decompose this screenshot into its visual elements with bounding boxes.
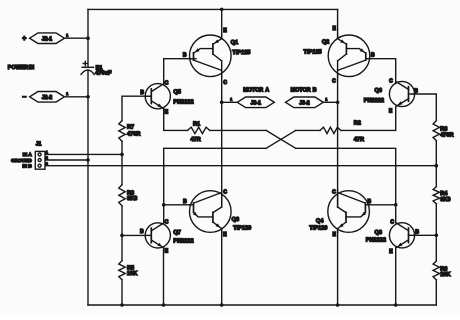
label Q5 pin C [165,80,169,86]
transistor Q2 [328,34,370,77]
wire crossover lower-right to Q4 base node [296,148,396,205]
svg-text:POWER: POWER [8,65,28,71]
wire Q4 base [369,204,396,206]
label IN A [23,152,33,157]
svg-text:2: 2 [46,156,48,160]
svg-text:470R: 470R [440,132,453,138]
transistor Q5 [145,84,170,109]
label R4 [440,191,450,203]
wire crossover diagonal B [266,130,296,148]
resistor R3 [119,185,125,206]
wire R6 to ground rail [435,280,437,305]
svg-text:1: 1 [230,97,232,101]
transistor Q7 [145,223,170,248]
transistor Q4 [328,190,370,233]
wire Q2 emitter pin [337,9,339,36]
label Q6 pin E [389,109,393,115]
label Q3 [232,217,252,232]
wire Q3 emitter to ground [221,229,223,305]
connector J3-1 MOTOR A [237,97,274,108]
svg-text:C: C [165,80,169,86]
svg-text:1: 1 [66,34,68,38]
svg-text:470R: 470R [127,132,140,138]
wire R8 to IN B node [435,141,437,187]
label Q2 pin B [371,52,375,58]
resistor R4 [433,187,439,204]
resistor R2 [320,127,341,133]
svg-text:10K: 10K [127,271,137,277]
svg-text:Q7: Q7 [173,230,180,236]
label J2-1 pin 1 [66,34,68,38]
svg-text:47R: 47R [354,137,364,143]
svg-text:10K: 10K [440,272,450,278]
node Q8 emitter ground junction [394,303,398,307]
wire motor A node to Q3 collector [221,102,223,207]
wire crossover diagonal A [266,130,296,148]
node IN A junction [120,153,124,157]
svg-text:C: C [332,190,336,196]
svg-text:C: C [332,78,336,84]
svg-text:TIP120: TIP120 [309,226,327,232]
svg-text:IN A: IN A [23,152,33,157]
wire Q4 emitter to ground [337,229,339,305]
svg-text:J1: J1 [36,142,42,148]
wire crossover upper-right to R2 [296,129,320,131]
wire R1 to crossover [210,129,266,131]
svg-text:J2-1: J2-1 [42,36,52,42]
label POWER IN [8,65,34,71]
wire Q8 emitter to ground [395,248,397,305]
resistor R8 [433,121,439,141]
svg-text:470uF: 470uF [95,71,112,77]
svg-text:C: C [165,219,169,225]
svg-text:B: B [368,199,372,205]
connector J3-2 MOTOR B [286,97,324,108]
wire J2-1 to rail [64,37,88,39]
svg-text:PN2222: PN2222 [173,99,193,105]
node Q3 base junction [162,203,166,207]
node Q7 base junction [120,234,124,238]
svg-text:IN B: IN B [22,163,32,168]
label E1 value [95,66,112,77]
svg-text:PN2222: PN2222 [364,98,384,104]
wire motor B hexagon lead [323,101,337,103]
svg-text:Q4: Q4 [316,218,324,224]
node Q8 base junction [435,234,439,238]
svg-text:3K3: 3K3 [440,197,450,203]
svg-text:GROUND: GROUND [11,158,32,163]
label Q7 pin E [165,249,169,255]
node ground J2-2 junction [86,95,90,99]
label Q1 [231,40,251,56]
svg-text:B: B [313,87,317,93]
label Q8 [366,230,386,244]
label J3-1 pin 1 [230,97,232,101]
svg-text:Q6: Q6 [375,88,382,94]
wire Q3 base [164,204,191,206]
svg-text:B: B [371,52,375,58]
svg-text:PN2222: PN2222 [173,238,193,244]
svg-text:R7: R7 [127,124,134,130]
label J1 [36,142,42,148]
node IN B junction [435,164,439,168]
connector J1 [35,151,45,169]
svg-text:B: B [140,90,144,96]
wire left V+ riser (J2-1 to top rail) [87,9,89,67]
resistor R5 [119,261,125,280]
svg-text:B: B [183,52,187,58]
wire Q7 emitter to ground [163,248,165,305]
transistor Q1 [189,34,231,77]
label Q2 pin C [332,78,336,84]
label J3-2 pin 1 [325,97,327,101]
label Q8 pin B [415,229,419,235]
svg-text:47R: 47R [190,137,200,143]
label R1 [190,121,200,143]
svg-text:C: C [223,80,227,86]
svg-text:Q2: Q2 [322,40,329,46]
svg-text:J2-2: J2-2 [42,95,52,101]
capacitor E1 [81,61,94,74]
svg-text:A: A [265,87,269,93]
label J2-2 minus [22,94,26,101]
label J2-1 plus [22,36,26,43]
wire R3 to R5 segment [121,206,123,261]
wire R5 to ground rail [121,280,123,305]
svg-text:C: C [390,220,394,226]
svg-text:MOTOR: MOTOR [243,87,263,93]
label Q5 pin B [140,90,144,96]
label Q4 pin E [332,232,336,238]
label Q5 [173,90,193,106]
svg-text:3K3: 3K3 [127,196,137,202]
label R8 [440,127,453,139]
resistor R6 [433,261,439,280]
label Q7 pin C [165,219,169,225]
wire Q5 emitter to R1 row [164,108,188,130]
svg-text:B: B [183,199,187,205]
svg-text:B: B [415,229,419,235]
wire motor A hexagon lead [222,101,238,103]
label Q8 pin E [389,249,393,255]
wire Q7 collector [163,221,165,223]
svg-text:J3-2: J3-2 [299,100,309,106]
svg-text:1: 1 [46,150,48,154]
svg-text:MOTOR: MOTOR [291,87,311,93]
svg-text:TIP125: TIP125 [304,50,322,56]
node motor B junction [336,101,340,105]
label MOTOR A [243,87,269,93]
label R3 [127,191,137,202]
svg-text:–: – [22,94,26,101]
svg-text:Q5: Q5 [173,90,180,96]
transistor Q6 [389,81,414,106]
wire ground bottom rail [88,304,436,306]
transistor Q8 [389,223,414,248]
node R5 ground junction [120,303,124,307]
svg-text:1: 1 [325,97,327,101]
node V+ J2-1 junction [86,36,90,40]
node GROUND junction [86,158,90,162]
wire Q1 base to Q5 collector [164,59,196,85]
label Q2 pin E [332,26,336,32]
label Q6 pin B [414,89,418,95]
node Q7 emitter ground junction [162,303,166,307]
label Q1 pin B [183,52,187,58]
node motor A junction [220,101,224,105]
label Q6 [364,88,384,104]
svg-text:B: B [140,229,144,235]
label Q3 pin E [223,232,227,238]
wire Q8 base [415,234,436,236]
wire IN B line [45,165,436,167]
svg-text:IN: IN [29,65,34,71]
label J1 pin 2 [46,156,48,160]
svg-text:C: C [389,78,393,84]
wire Q5 base to R7 [122,96,151,120]
label R2 [354,121,364,143]
wire motor B node to Q4 collector [337,102,339,207]
svg-text:R2: R2 [354,121,361,127]
label Q7 [173,230,193,244]
wire Q4 base node to Q8 collector [395,205,397,223]
svg-text:+: + [22,36,26,43]
wire Q6 base to R8 [413,94,437,121]
svg-text:C: C [223,189,227,195]
label J1 pin 1 [46,150,48,154]
svg-text:J3-1: J3-1 [251,100,261,106]
label Q4 pin B [368,199,372,205]
connector J2-1 [30,33,65,44]
transistor Q3 [189,190,231,233]
svg-text:TIP125: TIP125 [232,50,250,56]
label Q3 pin B [183,199,187,205]
wire Q2 collector to motor B node [337,75,339,103]
svg-text:Q3: Q3 [232,217,239,223]
label Q4 pin C [332,190,336,196]
svg-text:3: 3 [46,162,48,166]
label J2-2 pin 1 [66,92,68,96]
label Q8 pin C [390,220,394,226]
wire R7 to IN A node [121,141,123,184]
node Q4 emitter ground junction [336,303,340,307]
wire Q2 base to Q6 collector [370,59,396,84]
svg-text:1: 1 [66,92,68,96]
label R5 [127,266,137,277]
svg-text:TIP120: TIP120 [233,226,251,232]
svg-text:R1: R1 [193,121,200,127]
svg-text:PN2222: PN2222 [366,237,386,243]
node Q1 emitter top-rail junction [220,8,224,12]
connector J2-2 [30,92,65,103]
wire IN A line [45,153,122,155]
label MOTOR B [291,87,317,93]
label Q6 pin C [389,78,393,84]
label Q1 pin C [223,80,227,86]
node Q4 base junction [394,203,398,207]
wire ground riser below E1 [87,70,89,305]
resistor R1 [188,127,210,133]
svg-text:Q1: Q1 [231,40,238,46]
label Q1 pin E [223,28,227,34]
wire Q7 base [122,234,145,236]
label Q3 pin C [223,189,227,195]
label IN B [22,163,32,168]
wire J2-2 to rail [64,96,88,98]
label R6 [440,267,450,278]
resistor R7 [119,121,125,142]
label J1 pin 3 [46,162,48,166]
label GROUND [11,158,32,163]
wire Q1 emitter pin [221,9,223,36]
wire Q1 collector to motor A node [221,75,223,103]
label Q5 pin E [165,110,169,116]
wire V+ top rail [88,8,338,10]
label Q2 [304,40,330,56]
svg-text:B: B [414,89,418,95]
wire GROUND line [45,159,88,161]
node Q3 emitter ground junction [220,303,224,307]
label Q4 [309,218,327,231]
label R7 [127,124,140,137]
label Q7 pin B [140,229,144,235]
wire R4 to R6 segment [435,204,437,261]
wire lower row to Q3 base node [164,148,266,222]
wire R2 to Q6 emitter [341,107,396,130]
svg-text:Q8: Q8 [375,230,382,236]
